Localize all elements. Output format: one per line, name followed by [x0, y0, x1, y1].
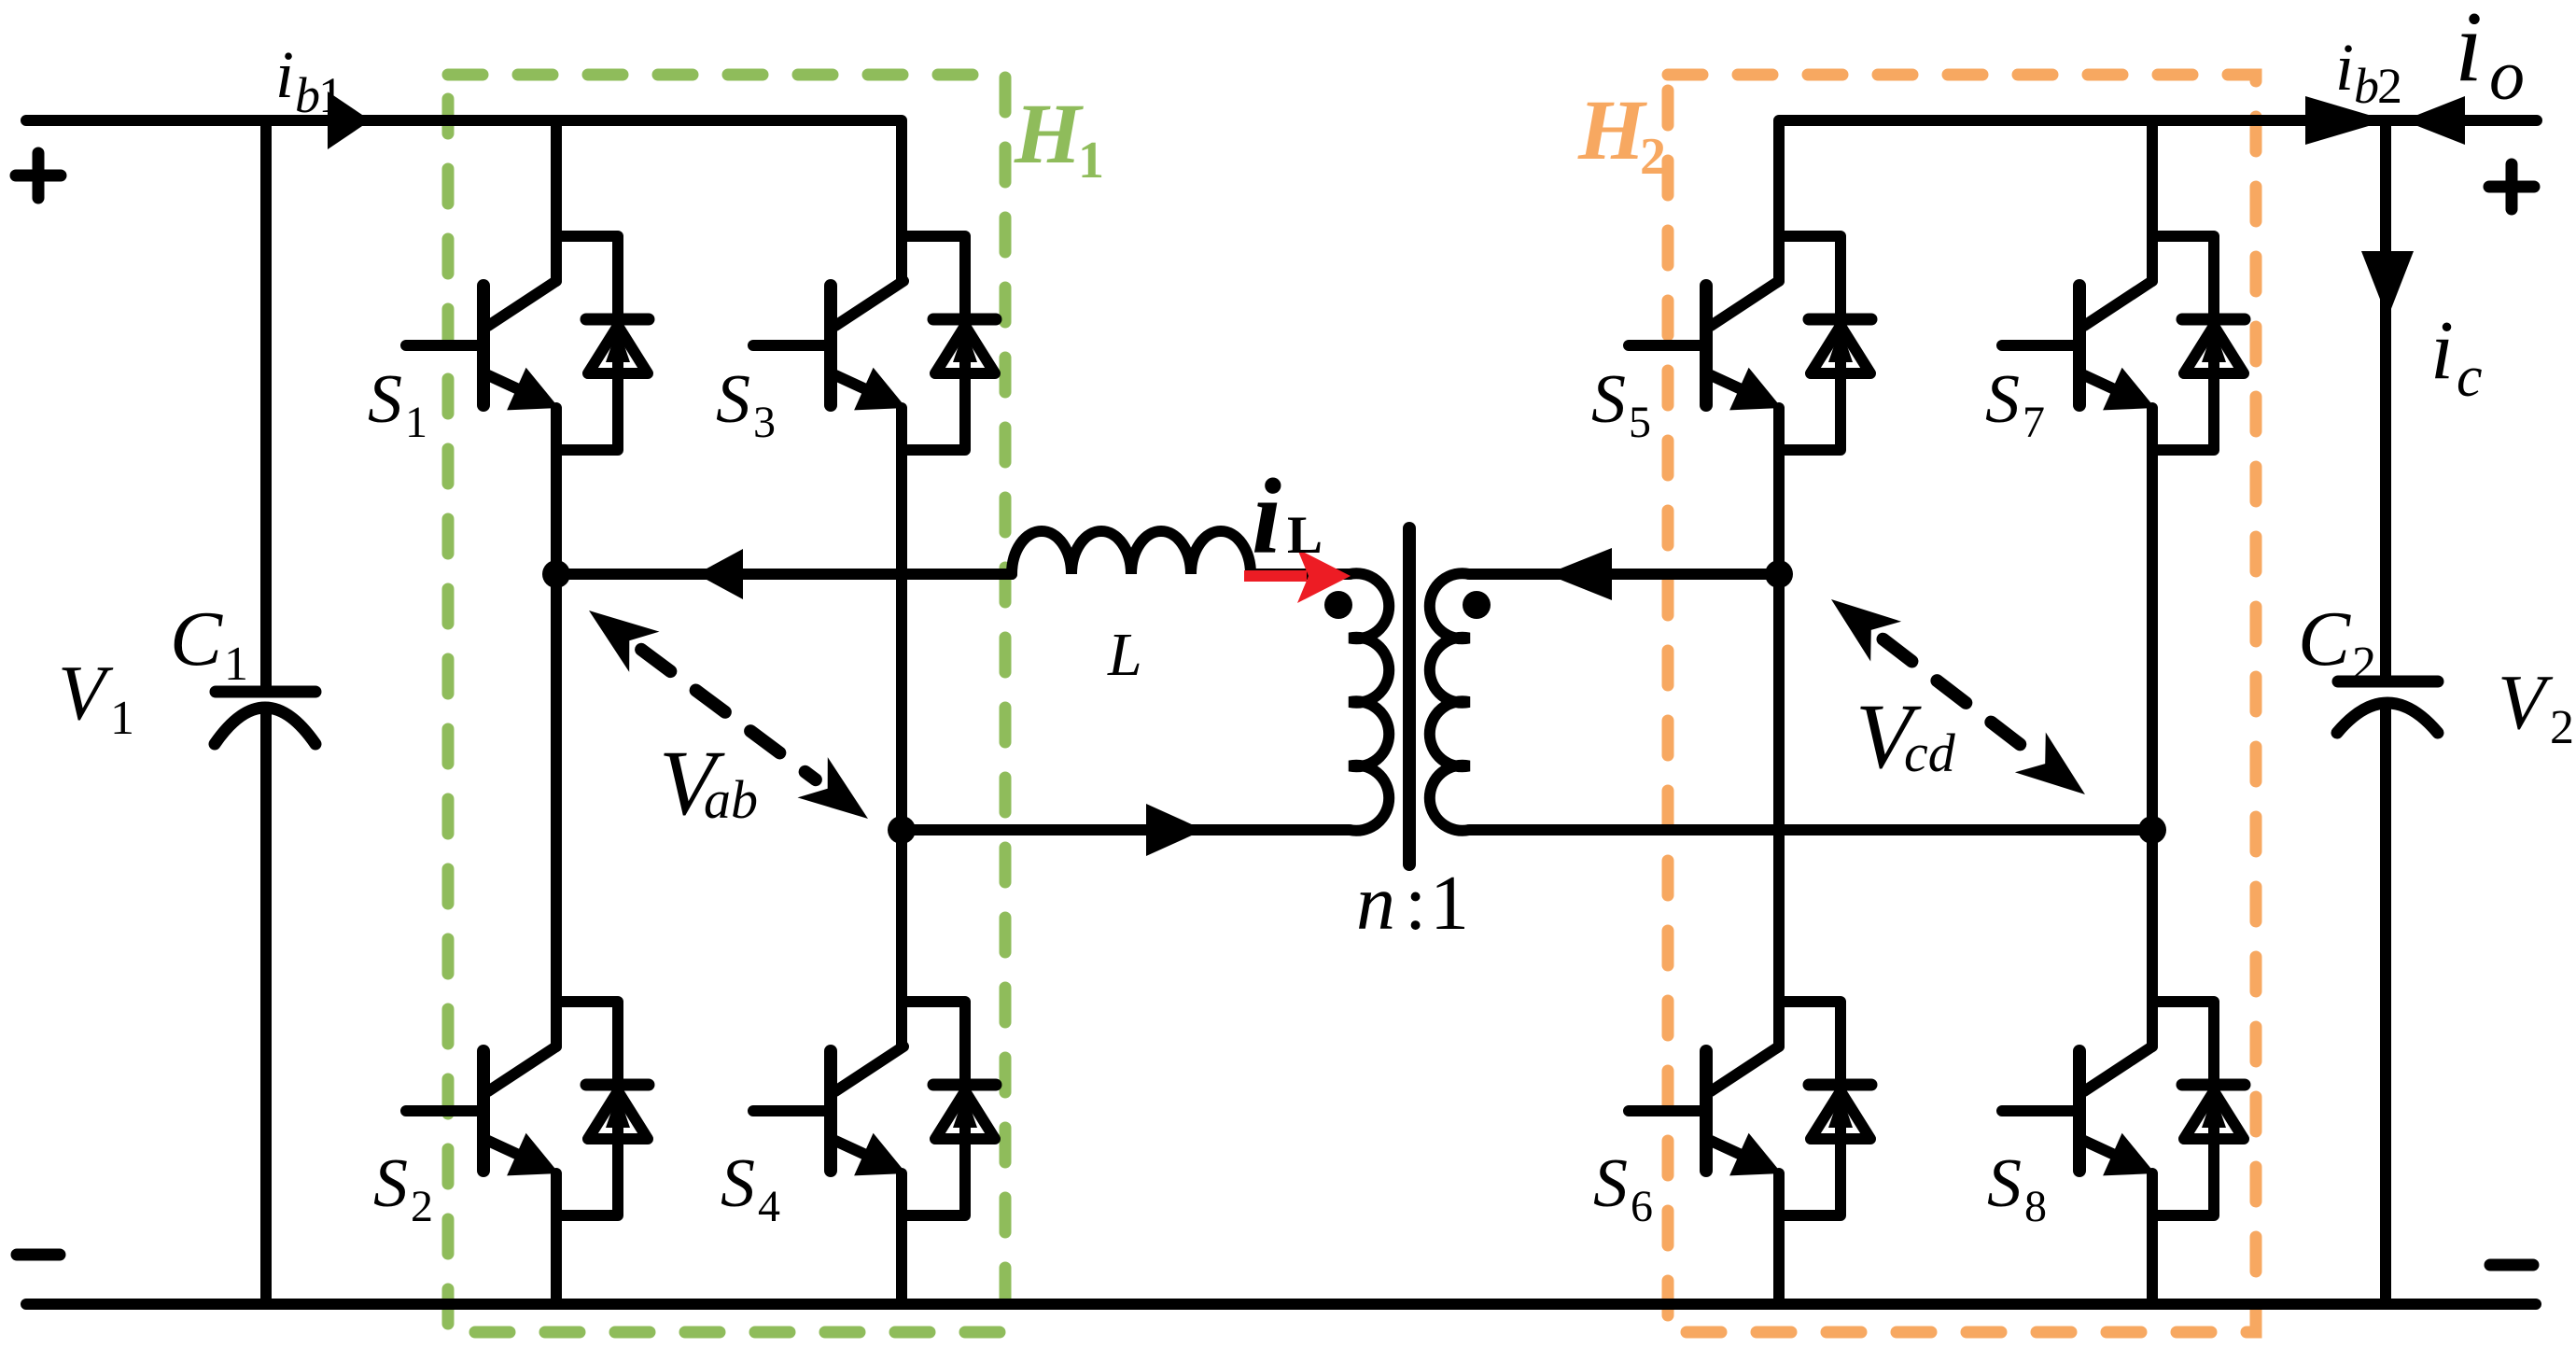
- svg-text:i: i: [2430, 304, 2454, 397]
- svg-text:ab: ab: [704, 769, 758, 830]
- svg-text:S: S: [1985, 361, 2020, 438]
- svg-text:L: L: [1287, 506, 1323, 565]
- svg-text:2: 2: [1640, 128, 1666, 186]
- svg-text:6: 6: [1631, 1182, 1653, 1231]
- svg-text:V: V: [2498, 659, 2554, 746]
- svg-text:H: H: [1014, 86, 1084, 181]
- svg-text:2: 2: [2550, 701, 2574, 754]
- svg-text:b: b: [2354, 58, 2379, 114]
- svg-text:S: S: [721, 1145, 755, 1222]
- svg-text:C: C: [2298, 596, 2351, 682]
- svg-text:2: 2: [411, 1182, 433, 1231]
- svg-text:S: S: [716, 361, 750, 438]
- svg-text:3: 3: [753, 398, 776, 447]
- svg-text:1: 1: [224, 638, 248, 691]
- svg-text:5: 5: [1629, 398, 1651, 447]
- svg-text:1: 1: [405, 398, 427, 447]
- svg-text:o: o: [2489, 36, 2525, 115]
- svg-text:i: i: [275, 37, 294, 112]
- svg-text:1: 1: [1078, 132, 1104, 190]
- svg-text:S: S: [368, 361, 402, 438]
- svg-text:S: S: [373, 1145, 408, 1222]
- svg-text:4: 4: [758, 1182, 780, 1231]
- svg-text:2: 2: [2377, 58, 2402, 114]
- svg-text:L: L: [1107, 621, 1142, 689]
- svg-text:cd: cd: [1904, 723, 1956, 783]
- svg-text:S: S: [1987, 1145, 2022, 1222]
- svg-text:i: i: [1252, 457, 1281, 576]
- svg-text:2: 2: [2352, 638, 2376, 691]
- svg-text::: :: [1405, 860, 1426, 947]
- svg-text:7: 7: [2023, 398, 2045, 447]
- svg-text:S: S: [1593, 1145, 1628, 1222]
- svg-text:c: c: [2457, 345, 2483, 409]
- svg-text:V: V: [58, 650, 114, 737]
- svg-text:C: C: [170, 596, 223, 682]
- svg-text:H: H: [1577, 82, 1647, 177]
- svg-text:S: S: [1591, 361, 1626, 438]
- svg-text:n: n: [1356, 860, 1395, 947]
- svg-text:8: 8: [2024, 1182, 2047, 1231]
- svg-text:b: b: [295, 67, 320, 123]
- svg-text:1: 1: [110, 692, 134, 745]
- svg-text:1: 1: [318, 67, 343, 123]
- svg-text:i: i: [2335, 30, 2354, 105]
- svg-text:i: i: [2455, 0, 2483, 103]
- svg-text:1: 1: [1430, 860, 1469, 947]
